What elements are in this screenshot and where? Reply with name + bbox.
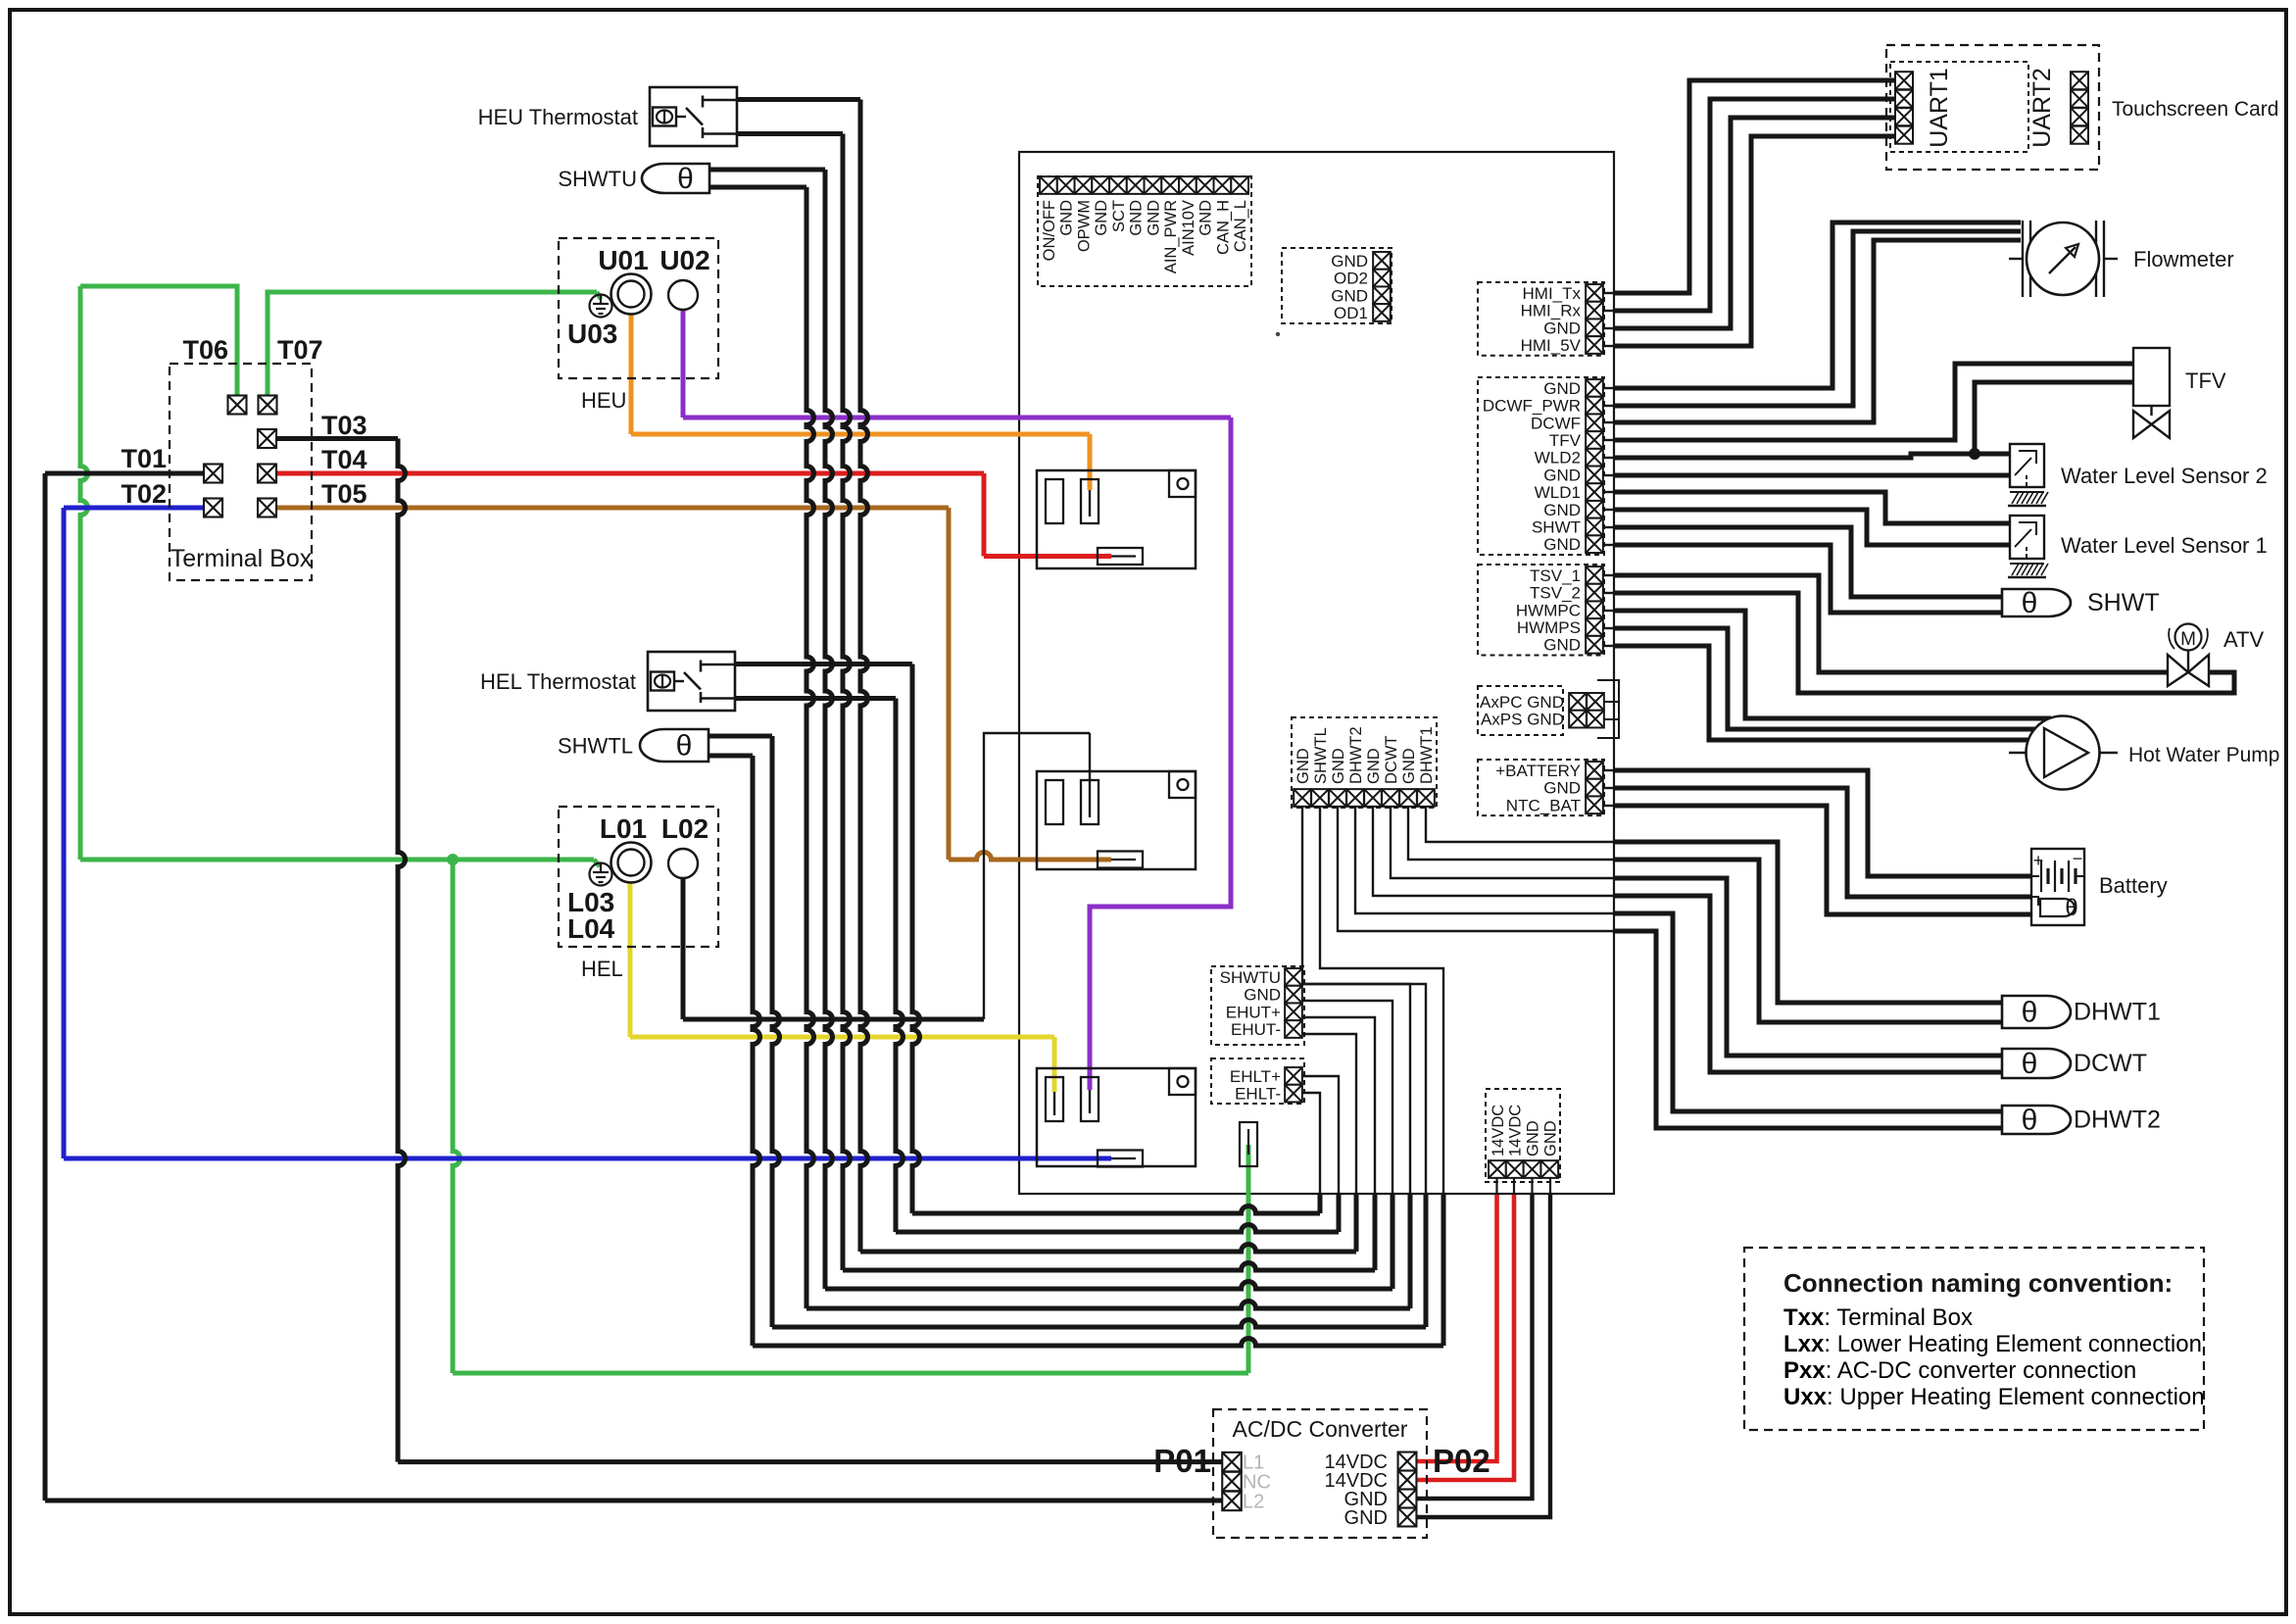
pin GND	[1285, 986, 1302, 1004]
pin HWMPC	[1586, 601, 1603, 618]
svg-text:GND: GND	[1543, 636, 1581, 655]
svg-text:GND: GND	[1543, 535, 1581, 554]
wire bottom connector GND pin5 to DCWT bottom	[1373, 807, 1614, 896]
svg-text:Touchscreen Card: Touchscreen Card	[2112, 98, 2278, 121]
connector battery	[1478, 760, 1604, 815]
valve ATV	[2175, 624, 2202, 651]
pin UART1-3	[1895, 108, 1913, 125]
wire SHWTL sensor bottom to bottom connector SHWTL pin2	[708, 754, 753, 759]
water level sensor 2	[2010, 444, 2044, 487]
pin AxPC GND a	[1569, 693, 1587, 711]
pin GND	[1294, 789, 1311, 807]
svg-text:GND: GND	[1344, 1507, 1388, 1529]
wire black T01 to AC-DC P01 L2	[45, 471, 204, 476]
pin SHWTU	[1285, 968, 1302, 986]
pin +BATTERY	[1586, 762, 1603, 779]
svg-text:P01: P01	[1153, 1443, 1211, 1479]
svg-text:HEL Thermostat: HEL Thermostat	[480, 669, 636, 694]
heating element HEL terminals L01 L02 L03 L04 ground symbol	[590, 863, 612, 886]
thermostat HEL	[648, 652, 735, 711]
svg-text:GND: GND	[1197, 200, 1215, 236]
svg-text:Battery: Battery	[2099, 873, 2168, 898]
legend connection naming convention	[1744, 1248, 2204, 1430]
pin OPWM	[1075, 176, 1093, 194]
pin 14VDC	[1506, 1160, 1524, 1178]
pin DHWT1	[1417, 789, 1435, 807]
pin AxPS GND b	[1587, 711, 1604, 728]
svg-text:L01: L01	[600, 813, 647, 844]
svg-text:ON/OFF: ON/OFF	[1041, 200, 1058, 261]
pin EHUT-	[1285, 1020, 1302, 1038]
wire red 14VDC pin2	[1416, 1195, 1514, 1480]
wire green earth T07 to HEU ground	[268, 292, 597, 396]
pin GND	[1586, 319, 1603, 336]
svg-text:L2: L2	[1243, 1491, 1264, 1512]
pin GND	[1586, 535, 1603, 553]
pin HMI_5V	[1586, 336, 1603, 354]
svg-text:Uxx: Upper Heating Element con: Uxx: Upper Heating Element connection	[1783, 1384, 2205, 1410]
svg-text:HMI_Tx: HMI_Tx	[1523, 284, 1582, 303]
relay board 1 (upper heating element)	[1037, 470, 1196, 568]
svg-text:θ: θ	[677, 163, 694, 195]
pin GND	[1524, 1160, 1541, 1178]
pin TSV_1	[1586, 566, 1603, 584]
wire brown T05 to relay 2 connector	[276, 506, 949, 511]
pin TFV	[1586, 431, 1603, 449]
svg-text:T05: T05	[321, 479, 367, 509]
heating element HEL terminals L01 L02 L03 L04	[559, 807, 718, 947]
pin GND	[1586, 379, 1603, 397]
AxPC/AxPS chassis bracket	[1597, 680, 1619, 738]
main controller board outline	[1019, 152, 1614, 1194]
wire orange U01 to relay 1 pin	[629, 315, 634, 434]
svg-text:U01: U01	[598, 245, 648, 275]
sensor DHWT1	[2002, 996, 2071, 1028]
wire HEL thermostat top to EHLT- pin	[736, 662, 912, 666]
svg-text:L02: L02	[661, 813, 708, 844]
pin UART1-1	[1895, 72, 1913, 89]
svg-text:DHWT2: DHWT2	[2074, 1107, 2161, 1134]
svg-text:GND: GND	[1295, 748, 1312, 784]
pin OD2	[1373, 270, 1391, 287]
svg-text:DHWT1: DHWT1	[2074, 999, 2161, 1026]
svg-text:OD1: OD1	[1334, 304, 1368, 322]
svg-text:EHLT+: EHLT+	[1230, 1067, 1281, 1086]
valve TFV	[2133, 348, 2170, 406]
svg-text:Connection naming convention:: Connection naming convention:	[1783, 1268, 2173, 1298]
svg-text:HEL: HEL	[581, 957, 623, 981]
svg-text:T02: T02	[121, 479, 167, 509]
pin UART2-1	[2071, 72, 2088, 89]
wire blue T02 to relay 3 connector	[64, 506, 204, 511]
pin GND	[1092, 176, 1109, 194]
wire HWMPS to Hot Water Pump	[1603, 627, 1614, 629]
pin UART2-2	[2071, 90, 2088, 108]
wire black T03 to AC-DC P01 L1	[276, 436, 398, 441]
svg-text:GND: GND	[1365, 748, 1383, 784]
svg-text:T07: T07	[277, 335, 323, 365]
wire HMI_Rx to UART1 pin2	[1603, 310, 1614, 312]
wire ATV return to TSV_2	[1614, 593, 2234, 693]
pin HMI_Rx	[1586, 302, 1603, 320]
wire HMI_5V to UART1 pin4	[1603, 345, 1614, 347]
wire HWMPC to Hot Water Pump	[1603, 610, 1614, 612]
svg-text:GND: GND	[1058, 200, 1076, 236]
water level sensor 1	[2010, 516, 2044, 559]
svg-text:T03: T03	[321, 411, 367, 440]
svg-text:GND: GND	[1093, 200, 1110, 236]
pin GND	[1586, 501, 1603, 518]
wire TFV pin to TFV valve	[1603, 439, 1614, 441]
pin DCWT	[1382, 789, 1399, 807]
pin GND	[1399, 789, 1417, 807]
svg-text:U03: U03	[567, 319, 617, 349]
wire black L02 relay 2 riser	[984, 733, 1090, 1019]
pin P02 GND	[1398, 1490, 1417, 1508]
svg-text:θ: θ	[2022, 997, 2038, 1029]
svg-text:ATV: ATV	[2223, 627, 2264, 652]
pin P02 GND	[1398, 1508, 1417, 1527]
wire GND to flowmeter	[1603, 387, 1614, 389]
pin P02 14VDC	[1398, 1452, 1417, 1471]
sensor DHWT2	[2002, 1106, 2071, 1134]
svg-text:AxPC GND: AxPC GND	[1480, 693, 1564, 712]
sensor SHWTL	[640, 729, 708, 762]
svg-text:OD2: OD2	[1334, 270, 1368, 288]
connector 14VDC power	[1486, 1089, 1560, 1182]
pin AxPC GND b	[1587, 693, 1604, 711]
wire GND P02 pin3	[1416, 1195, 1533, 1499]
AC/DC converter	[1213, 1409, 1427, 1538]
pin AxPS GND a	[1569, 711, 1587, 728]
pin SHWTL	[1311, 789, 1329, 807]
terminal T01	[204, 465, 222, 483]
svg-text:M: M	[2180, 629, 2196, 650]
svg-text:GND: GND	[1543, 379, 1581, 398]
wire HEU thermostat top to EHUT- pin	[737, 97, 860, 102]
wire GND to Water Level Sensor 1	[1603, 509, 1614, 511]
svg-text:Water Level Sensor 2: Water Level Sensor 2	[2061, 464, 2268, 488]
pin NTC_BAT	[1586, 796, 1603, 813]
pin CAN_H	[1214, 176, 1232, 194]
connector main control 12-pin	[1038, 176, 1251, 286]
sensor SHWT	[2002, 589, 2071, 616]
pin TSV_2	[1586, 584, 1603, 602]
wire bottom connector GND pin3 to DHWT2 bottom	[1338, 807, 1614, 931]
svg-text:Hot Water Pump: Hot Water Pump	[2128, 744, 2279, 766]
svg-text:HEU Thermostat: HEU Thermostat	[478, 105, 638, 129]
svg-text:TSV_1: TSV_1	[1530, 566, 1581, 585]
svg-text:HEU: HEU	[581, 388, 626, 413]
battery NTC	[2031, 897, 2038, 906]
svg-text:SHWTL: SHWTL	[558, 734, 633, 759]
pin GND	[1586, 779, 1603, 797]
wire bottom connector DHWT1 pin8 to DHWT1 top	[1426, 807, 1614, 842]
pin L2	[1222, 1492, 1242, 1511]
wire bottom connector DCWT pin6 to DCWT top	[1391, 807, 1614, 878]
wire DCWF to flowmeter	[1603, 421, 1614, 423]
pin GND	[1057, 176, 1075, 194]
pin HWMPS	[1586, 618, 1603, 636]
svg-text:EHLT-: EHLT-	[1235, 1085, 1281, 1104]
pin DCWF	[1586, 414, 1603, 431]
pin P02 14VDC	[1398, 1471, 1417, 1490]
svg-text:GND: GND	[1128, 200, 1146, 236]
svg-text:HMI_Rx: HMI_Rx	[1521, 302, 1582, 320]
svg-text:Terminal Box: Terminal Box	[171, 545, 313, 572]
svg-text:GND: GND	[1543, 319, 1581, 337]
svg-text:SHWTU: SHWTU	[558, 167, 637, 191]
wire GND to SHWT sensor	[1603, 544, 1614, 546]
connector HMI	[1478, 282, 1604, 356]
wire HEU thermostat bottom to EHUT+ pin	[737, 131, 843, 136]
wire WLD1 to Water Level Sensor 1	[1603, 491, 1614, 493]
pin SHWT	[1586, 518, 1603, 536]
svg-text:TSV_2: TSV_2	[1530, 584, 1581, 603]
pin GND	[1145, 176, 1162, 194]
pin WLD2	[1586, 449, 1603, 467]
pin DCWF_PWR	[1586, 397, 1603, 415]
heating element HEU terminals U01 U02 U03	[559, 238, 718, 378]
svg-text:θ: θ	[676, 730, 693, 763]
svg-text:AIN_PWR: AIN_PWR	[1162, 200, 1180, 273]
svg-text:U02: U02	[659, 245, 709, 275]
connector OD outputs	[1282, 248, 1392, 323]
svg-text:T04: T04	[321, 445, 367, 474]
svg-text:θ: θ	[2022, 1048, 2038, 1080]
pin GND	[1586, 636, 1603, 654]
svg-text:GND: GND	[1331, 286, 1368, 305]
svg-text:T06: T06	[182, 335, 228, 365]
wire GND to Battery	[1603, 787, 1614, 789]
wire +BATTERY to Battery	[1603, 769, 1614, 771]
sensor DCWT	[2002, 1049, 2071, 1078]
svg-text:Pxx: AC-DC converter connectio: Pxx: AC-DC converter connection	[1783, 1357, 2136, 1384]
svg-text:−: −	[2073, 849, 2083, 868]
relay board 2 (lower heating element)	[1037, 771, 1196, 869]
connector AxPC/AxPS GND	[1478, 686, 1563, 735]
pin EHLT-	[1285, 1085, 1302, 1103]
terminal T07	[259, 396, 277, 415]
svg-text:NC: NC	[1243, 1472, 1271, 1494]
pin EHUT+	[1285, 1003, 1302, 1020]
svg-text:DHWT1: DHWT1	[1418, 726, 1436, 784]
pin AIN10V	[1179, 176, 1197, 194]
svg-text:DCWT: DCWT	[2074, 1050, 2147, 1077]
wire black L02 to relay 2 pin	[681, 878, 686, 1019]
svg-text:GND: GND	[1400, 748, 1418, 784]
connector EHLT	[1211, 1058, 1304, 1104]
wire GND to UART1 pin3	[1603, 327, 1614, 329]
terminal box	[170, 364, 312, 580]
pin GND	[1586, 467, 1603, 484]
svg-text:GND: GND	[1525, 1120, 1542, 1156]
pin GND	[1127, 176, 1145, 194]
wire bottom connector GND pin7 to DHWT1 bottom	[1408, 807, 1614, 860]
svg-text:WLD2: WLD2	[1535, 449, 1581, 468]
terminal T04	[258, 465, 276, 483]
svg-text:GND: GND	[1543, 501, 1581, 519]
wire GND P02 pin4	[1416, 1195, 1550, 1517]
pin WLD1	[1586, 483, 1603, 501]
svg-text:GND: GND	[1543, 779, 1581, 798]
pin L1	[1222, 1452, 1242, 1472]
pin OD1	[1373, 304, 1391, 321]
hot water pump	[2009, 752, 2027, 754]
svg-text:L04: L04	[567, 913, 615, 944]
svg-text:EHUT-: EHUT-	[1231, 1020, 1281, 1039]
flowmeter	[2022, 221, 2024, 297]
wire red T04 to relay 1 connector	[276, 471, 984, 476]
svg-text:OPWM: OPWM	[1075, 200, 1093, 252]
svg-text:EHUT+: EHUT+	[1226, 1003, 1281, 1021]
connector bottom sensors 8-pin	[1292, 717, 1437, 808]
pin ON/OFF	[1040, 176, 1057, 194]
svg-text:θ: θ	[2065, 895, 2077, 921]
svg-text:θ: θ	[2022, 587, 2038, 619]
svg-text:HWMPS: HWMPS	[1517, 618, 1581, 637]
wire SHWTU sensor top to GND pin	[709, 168, 825, 172]
wire NTC_BAT to Battery	[1603, 805, 1614, 807]
relay 3 earth connector	[1240, 1122, 1257, 1166]
wire GND to Water Level Sensor 2	[1603, 474, 1614, 476]
pin AIN_PWR	[1161, 176, 1179, 194]
pin GND	[1373, 252, 1391, 270]
pin 14VDC	[1489, 1160, 1506, 1178]
svg-text:DCWT: DCWT	[1383, 736, 1400, 784]
wire green earth T06 riser and left drop	[80, 286, 237, 396]
pin EHLT+	[1285, 1067, 1302, 1085]
svg-text:TFV: TFV	[2185, 369, 2226, 393]
pin CAN_L	[1231, 176, 1248, 194]
svg-text:SHWT: SHWT	[2087, 589, 2160, 616]
terminal T03	[258, 429, 276, 448]
svg-text:Water Level Sensor 1: Water Level Sensor 1	[2061, 533, 2268, 558]
wire TFV GND branch	[1975, 382, 2133, 454]
svg-text:UART2: UART2	[2028, 68, 2056, 148]
svg-text:+: +	[2033, 851, 2044, 870]
pin HMI_Tx	[1586, 284, 1603, 302]
svg-text:GND: GND	[1330, 748, 1347, 784]
svg-text:Flowmeter: Flowmeter	[2133, 247, 2234, 271]
pin UART2-4	[2071, 126, 2088, 144]
svg-text:SHWTL: SHWTL	[1312, 727, 1330, 784]
svg-text:14VDC: 14VDC	[1507, 1105, 1525, 1156]
heating element HEU terminals U01 U02 U03 ground symbol	[590, 295, 612, 318]
wire WLD2 to Water Level Sensor 2	[1603, 457, 1614, 459]
pin GND	[1197, 176, 1214, 194]
svg-text:+BATTERY: +BATTERY	[1495, 762, 1581, 780]
svg-text:GND: GND	[1541, 1120, 1559, 1156]
svg-text:UART1: UART1	[1926, 68, 1953, 148]
wire purple U02 to relay 3 pin	[681, 310, 686, 418]
sensor SHWTU	[642, 164, 709, 193]
wire green earth branch to relay 3 earth connector	[453, 860, 461, 1373]
pin DHWT2	[1346, 789, 1364, 807]
pin SCT	[1109, 176, 1127, 194]
pin NC	[1222, 1472, 1242, 1492]
wire SHWT pin to SHWT sensor	[1603, 526, 1614, 528]
svg-text:θ: θ	[2022, 1105, 2038, 1137]
pin GND	[1373, 286, 1391, 304]
svg-text:L1: L1	[1243, 1452, 1264, 1474]
svg-text:AIN10V: AIN10V	[1180, 200, 1197, 256]
pin UART1-2	[1895, 90, 1913, 108]
battery	[2031, 849, 2084, 925]
connector valves and pump	[1478, 565, 1604, 656]
svg-text:HMI_5V: HMI_5V	[1521, 336, 1582, 355]
svg-text:AxPS GND: AxPS GND	[1481, 711, 1564, 729]
svg-text:SHWT: SHWT	[1532, 518, 1581, 537]
wire GND to Hot Water Pump	[1603, 645, 1614, 647]
wire HEL thermostat bottom to EHLT+ pin	[736, 696, 896, 701]
terminal T02	[204, 499, 222, 517]
svg-text:GND: GND	[1244, 986, 1281, 1005]
svg-text:Txx: Terminal Box: Txx: Terminal Box	[1783, 1304, 1973, 1331]
pin GND	[1329, 789, 1346, 807]
svg-text:WLD1: WLD1	[1535, 483, 1581, 502]
wire SHWTL sensor top to bottom connector GND pin1	[708, 734, 772, 739]
svg-text:GND: GND	[1543, 466, 1581, 484]
svg-text:AC/DC Converter: AC/DC Converter	[1233, 1416, 1408, 1442]
pin GND	[1364, 789, 1382, 807]
svg-text:14VDC: 14VDC	[1490, 1105, 1507, 1156]
wire HMI_Tx to UART1 pin1	[1603, 292, 1614, 294]
relay board 3	[1037, 1068, 1196, 1166]
pin UART2-3	[2071, 108, 2088, 125]
svg-text:P02: P02	[1433, 1443, 1490, 1479]
touchscreen card	[1886, 45, 2099, 170]
wire red 14VDC pin1	[1416, 1195, 1497, 1461]
pin GND	[1540, 1160, 1558, 1178]
svg-text:T01: T01	[121, 444, 167, 473]
wire SHWTU sensor bottom to SHWTU pin	[709, 185, 806, 190]
pin UART1-4	[1895, 126, 1913, 144]
svg-text:NTC_BAT: NTC_BAT	[1506, 796, 1581, 814]
wire yellow L01 to relay 3 pin	[628, 882, 633, 1037]
svg-text:GND: GND	[1331, 252, 1368, 271]
svg-text:DCWF: DCWF	[1531, 414, 1581, 432]
svg-text:SCT: SCT	[1110, 200, 1128, 232]
wire green earth horizontal to HEL ground	[80, 858, 594, 862]
connector SHWTU/EHUT	[1211, 966, 1304, 1045]
svg-text:TFV: TFV	[1549, 431, 1582, 450]
svg-text:CAN_H: CAN_H	[1214, 200, 1232, 255]
svg-text:DHWT2: DHWT2	[1347, 726, 1365, 784]
svg-text:DCWF_PWR: DCWF_PWR	[1483, 397, 1581, 416]
terminal T05	[258, 499, 276, 517]
wire TSV_1 to ATV valve	[1603, 574, 1614, 576]
connector sensors	[1478, 377, 1604, 555]
svg-text:SHWTU: SHWTU	[1220, 968, 1281, 987]
svg-text:GND: GND	[1145, 200, 1162, 236]
svg-text:HWMPC: HWMPC	[1516, 601, 1581, 619]
wire DCWF_PWR to flowmeter	[1603, 405, 1614, 407]
terminal T06	[228, 396, 247, 415]
wire bottom connector DHWT2 pin4 to DHWT2 top	[1355, 807, 1614, 913]
thermostat HEU	[650, 87, 737, 146]
svg-text:Lxx: Lower Heating Element con: Lxx: Lower Heating Element connection	[1783, 1331, 2202, 1357]
svg-text:CAN_L: CAN_L	[1232, 200, 1249, 252]
